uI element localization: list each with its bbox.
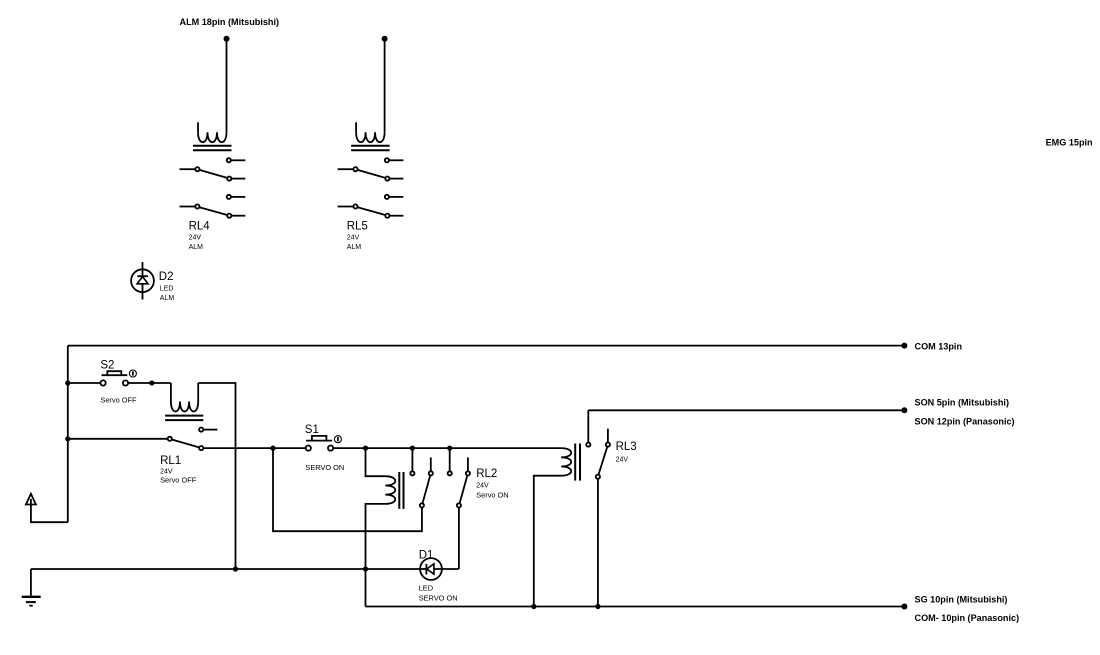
RL4 contact fixed stub 2: [227, 195, 246, 199]
node junction holding branch: [270, 446, 275, 451]
node junction RL3 contact return: [595, 604, 600, 609]
relay coil RL1: [165, 383, 203, 420]
svg-text:24V: 24V: [347, 235, 360, 242]
RL4 contact pole 1: [180, 167, 246, 181]
label RL1: [160, 455, 197, 485]
relay coil RL3: [534, 444, 580, 607]
svg-text:SON 12pin (Panasonic): SON 12pin (Panasonic): [915, 417, 1015, 427]
svg-text:RL3: RL3: [616, 441, 637, 453]
wire RL4 coil lead: [226, 39, 228, 133]
switch S2: [68, 371, 171, 385]
svg-text:COM- 10pin (Panasonic): COM- 10pin (Panasonic): [915, 613, 1020, 623]
label RL2: [476, 468, 508, 500]
label RL3: [616, 441, 637, 464]
label S2: [100, 359, 137, 404]
label S1: [305, 424, 344, 472]
svg-text:SON 5pin (Mitsubishi): SON 5pin (Mitsubishi): [915, 397, 1009, 407]
svg-text:COM 13pin: COM 13pin: [915, 341, 963, 351]
node junction S2 branch: [65, 380, 70, 385]
node SG terminal: [901, 604, 907, 610]
svg-text:D1: D1: [419, 550, 434, 562]
node junction RL2 coil: [363, 446, 368, 451]
svg-text:SERVO ON: SERVO ON: [419, 593, 458, 602]
LED D1: [420, 558, 459, 580]
svg-text:EMG 15pin: EMG 15pin: [1046, 137, 1093, 147]
RL2 contact A: [410, 448, 433, 507]
wire holding branch: [273, 448, 422, 531]
label SG pins: [915, 594, 1020, 623]
wire to 24V arrow: [31, 505, 68, 523]
svg-text:RL2: RL2: [476, 468, 497, 480]
LED D2: [131, 262, 154, 300]
svg-text:LED: LED: [419, 584, 433, 593]
label SON pins: [915, 397, 1015, 426]
S2 indicator circle: [129, 370, 136, 377]
RL5 contact fixed stub 1: [385, 158, 404, 162]
label D1: [419, 550, 458, 603]
wire left vertical: [67, 346, 69, 523]
svg-text:RL5: RL5: [347, 221, 368, 233]
svg-text:24V: 24V: [616, 456, 629, 463]
label RL5: [347, 221, 368, 252]
svg-text:RL1: RL1: [160, 455, 181, 467]
svg-text:ALM 18pin (Mitsubishi): ALM 18pin (Mitsubishi): [180, 17, 280, 27]
svg-text:ALM: ALM: [160, 295, 175, 302]
RL1 contact: [68, 437, 203, 451]
node junction RL2 return: [363, 566, 368, 571]
wire RL1 coil to return: [198, 383, 235, 569]
RL5 contact pole 2: [338, 204, 404, 217]
svg-text:SERVO ON: SERVO ON: [305, 463, 344, 472]
svg-text:ALM: ALM: [347, 244, 362, 251]
svg-text:Servo OFF: Servo OFF: [160, 476, 197, 485]
relay coil RL2: [366, 448, 404, 569]
ground: [22, 569, 41, 606]
RL2 contact B: [448, 448, 470, 569]
wire RL5 coil lead: [384, 39, 386, 133]
relay coil RL5: [351, 122, 390, 150]
svg-text:S1: S1: [305, 424, 319, 436]
RL4 contact pole 2: [180, 204, 246, 217]
svg-text:ALM: ALM: [189, 244, 204, 251]
wire S1 line: [203, 447, 305, 449]
svg-text:Servo OFF: Servo OFF: [100, 396, 137, 405]
svg-text:24V: 24V: [189, 235, 202, 242]
svg-text:SG 10pin (Mitsubishi): SG 10pin (Mitsubishi): [915, 594, 1008, 604]
node COM terminal: [901, 343, 907, 349]
wire COM top: [68, 345, 905, 347]
RL5 contact fixed stub 2: [385, 195, 404, 199]
svg-text:24V: 24V: [160, 469, 173, 476]
wire SON: [588, 409, 904, 411]
RL3 contact: [586, 410, 610, 606]
node junction RL1 return: [233, 566, 238, 571]
RL4 contact fixed stub 1: [227, 158, 246, 162]
svg-text:S2: S2: [100, 359, 114, 371]
node ALM terminal RL4: [224, 36, 230, 42]
node SON terminal: [901, 407, 907, 413]
switch S1: [306, 436, 334, 451]
node junction RL2 contact A: [410, 446, 415, 451]
wire SG bottom: [366, 606, 905, 608]
node junction RL3 return: [531, 604, 536, 609]
RL5 contact pole 1: [338, 167, 404, 181]
relay coil RL4: [193, 122, 232, 150]
wire RL2 return to SG: [365, 569, 367, 607]
svg-text:24V: 24V: [476, 483, 489, 490]
label RL4: [189, 221, 211, 252]
svg-text:Servo ON: Servo ON: [476, 491, 508, 500]
node junction after S2: [149, 380, 154, 385]
wire bottom left: [31, 568, 420, 570]
svg-text:D2: D2: [159, 271, 174, 283]
svg-text:LED: LED: [160, 286, 174, 293]
S1 indicator circle: [334, 436, 341, 443]
RL1 contact fixed stub: [199, 428, 217, 432]
node junction RL2 contact B: [447, 446, 452, 451]
node ALM terminal RL5: [382, 36, 388, 42]
svg-text:RL4: RL4: [189, 221, 211, 233]
node junction RL1 branch: [65, 436, 70, 441]
24V supply arrow: [26, 494, 36, 505]
label D2: [159, 271, 175, 302]
